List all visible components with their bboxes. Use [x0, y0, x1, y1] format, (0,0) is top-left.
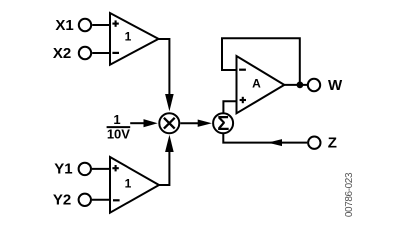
arrowhead down into multiplier: [165, 94, 174, 111]
wire op-amp output to W: [284, 84, 307, 86]
svg-text:1: 1: [113, 112, 120, 127]
op-amp A triangle: [237, 56, 285, 113]
svg-text:W: W: [328, 77, 343, 94]
terminal Z: [308, 137, 320, 149]
X buffer plus input mark: [112, 20, 118, 26]
svg-text:1: 1: [125, 30, 132, 44]
op-amp plus input mark: [240, 97, 246, 103]
svg-text:Y1: Y1: [54, 161, 72, 178]
svg-text:Y2: Y2: [53, 192, 71, 209]
svg-text:A: A: [252, 77, 261, 91]
svg-text:Z: Z: [328, 135, 337, 152]
svg-text:10V: 10V: [107, 127, 130, 142]
feedback wire from op-amp minus input over the top to output: [222, 38, 300, 85]
terminal X2: [79, 47, 91, 59]
multiplier circle: [159, 113, 179, 133]
wire Y1 to Y buffer: [92, 168, 110, 170]
wire Y buffer output to multiplier: [159, 151, 169, 185]
arrowhead up into multiplier: [165, 135, 174, 152]
wire summer to op-amp + input: [223, 101, 235, 113]
wire 1/10V into multiplier: [130, 122, 144, 124]
Y buffer minus input mark: [113, 199, 120, 201]
Y buffer plus input mark: [112, 165, 118, 171]
multiplier X cross mark: [164, 118, 175, 129]
wire Y2 to Y buffer: [92, 199, 110, 201]
terminal Y2: [79, 194, 91, 206]
terminal Y1: [79, 163, 91, 175]
op-amp minus input mark: [239, 69, 246, 71]
arrowhead right into summer: [198, 120, 212, 127]
terminal W: [308, 79, 320, 91]
terminal X1: [79, 19, 91, 31]
wire X1 to X buffer: [92, 24, 110, 26]
Y input buffer amp (gain 1) triangle: [110, 157, 159, 213]
wire X2 to X buffer: [92, 52, 110, 54]
summer circle: [213, 113, 233, 133]
arrowhead left toward summer on Z line: [268, 139, 282, 146]
junction dot at op-amp output: [297, 82, 304, 89]
scale factor value label 1/10V: [107, 112, 131, 142]
svg-text:1: 1: [125, 177, 132, 191]
svg-text:X2: X2: [53, 45, 71, 62]
svg-text:Σ: Σ: [217, 113, 229, 135]
wire multiplier to summer: [180, 122, 198, 124]
X buffer minus input mark: [112, 52, 119, 54]
wire X buffer output to multiplier: [159, 39, 170, 95]
svg-text:X1: X1: [55, 17, 73, 34]
X input buffer amp (gain 1) triangle: [110, 13, 159, 65]
svg-text:00786-023: 00786-023: [344, 172, 355, 217]
wire summer to Z line: [223, 133, 307, 142]
arrowhead right into multiplier: [144, 119, 158, 127]
